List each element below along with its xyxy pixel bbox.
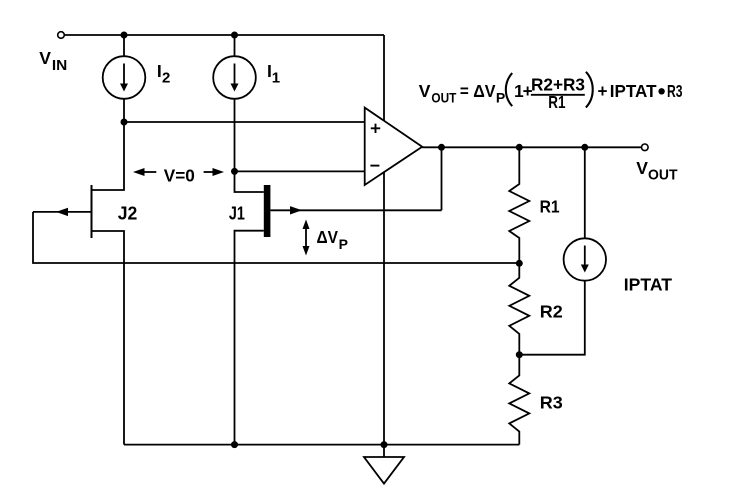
current source I1 [213, 56, 256, 99]
resistor R2 [509, 263, 529, 354]
wire op-amp output [422, 146, 641, 148]
svg-text:P: P [496, 89, 505, 105]
wire R2-R3 junction to IPTAT [519, 281, 585, 355]
node output junction [438, 144, 445, 151]
node J1 source junction [231, 441, 238, 448]
wire I2 bottom lead [123, 99, 125, 122]
svg-text:R3: R3 [667, 81, 683, 101]
node IPTAT top junction [581, 144, 588, 151]
transistor J1 channel bar [264, 185, 271, 237]
svg-text:V=0: V=0 [164, 165, 195, 185]
wire IPTAT top lead [584, 147, 586, 238]
wire J2 drain branch [92, 122, 125, 190]
svg-text:2: 2 [162, 70, 170, 87]
svg-text:P: P [339, 236, 348, 252]
node noninverting input junction [121, 119, 128, 126]
node V=0 junction [231, 168, 238, 175]
wire J1 drain branch [235, 171, 264, 192]
svg-text:V: V [636, 158, 648, 178]
node R1 top junction [516, 144, 523, 151]
wire J1 source lead [235, 231, 264, 445]
V=0 right arrow [204, 171, 217, 173]
resistor R1 [509, 147, 529, 263]
transistor J2 channel [91, 185, 93, 238]
wire I2 top lead [123, 35, 125, 56]
V=0 left arrow [141, 171, 156, 173]
svg-text:R2: R2 [540, 301, 563, 321]
svg-text:IN: IN [52, 57, 67, 74]
current source I2 [103, 56, 146, 99]
wire to op-amp - input [235, 170, 365, 172]
svg-text:J2: J2 [118, 202, 138, 223]
node R1-R2 junction [516, 260, 523, 267]
wire bottom rail [124, 444, 519, 446]
wire feedback to op-amp output [441, 147, 443, 210]
svg-text:IPTAT: IPTAT [624, 275, 672, 295]
wire I1 bottom lead [234, 99, 236, 172]
svg-text:OUT: OUT [648, 166, 678, 183]
wire center rail (top to ground) [383, 35, 385, 445]
svg-text:ΔV: ΔV [473, 81, 496, 101]
svg-text:1: 1 [272, 70, 280, 87]
svg-text:J1: J1 [229, 203, 245, 224]
node top junction I1 [231, 32, 238, 39]
svg-text:V: V [39, 48, 51, 68]
current source IPTAT [564, 238, 606, 280]
node VIN terminal [58, 32, 65, 39]
svg-text:ΔV: ΔV [317, 227, 339, 247]
ground [383, 445, 385, 457]
formula VOUT equation [419, 72, 683, 112]
svg-text:OUT: OUT [431, 89, 456, 105]
wire J2 gate to feedback bottom rail [33, 212, 519, 263]
svg-text:=: = [460, 81, 469, 101]
wire I1 top lead [234, 35, 236, 56]
wire to op-amp + input [124, 121, 365, 123]
svg-text:IPTAT: IPTAT [610, 81, 657, 101]
svg-text:R3: R3 [540, 393, 563, 413]
node ground junction [381, 441, 388, 448]
wire top rail VIN [65, 34, 385, 36]
delta VP measure arrow [305, 226, 307, 249]
svg-text:R1: R1 [548, 92, 565, 112]
svg-text:V: V [419, 81, 431, 101]
transistor J1 gate lead with arrow [270, 209, 441, 211]
node R2-R3 junction [516, 351, 523, 358]
transistor J2 gate lead with arrow [33, 211, 92, 213]
node top junction I2 [121, 32, 128, 39]
node VOUT terminal [642, 144, 649, 151]
svg-text:R1: R1 [540, 197, 560, 217]
resistor R3 [509, 355, 529, 445]
op-amp U1 [365, 108, 423, 185]
wire J2 source lead [92, 231, 125, 445]
svg-text:+: + [598, 81, 608, 101]
